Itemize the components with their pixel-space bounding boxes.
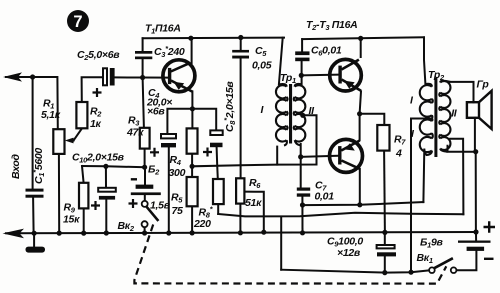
wire C2 left to R2 <box>82 77 103 102</box>
resistor R1 potentiometer box <box>53 129 64 154</box>
node T1 collector on top line <box>188 36 193 41</box>
capacitor C9 solid plate <box>377 252 396 256</box>
input arrow bottom <box>3 229 25 239</box>
resistor R3 <box>140 128 150 149</box>
wire R6 side tap <box>244 192 263 232</box>
input arrow top <box>3 72 22 81</box>
wire C10 top <box>105 166 107 187</box>
wire T2 emitter vertical <box>360 91 361 114</box>
svg-text:С1*5600: С1*5600 <box>31 148 46 184</box>
capacitor C5 plates <box>232 50 249 53</box>
wire bias left line R9-C10-B2 <box>82 166 145 167</box>
resistor R9 <box>79 183 88 209</box>
svg-text:I: I <box>261 104 265 116</box>
svg-text:Вк2: Вк2 <box>118 220 135 233</box>
wire speaker bottom <box>474 118 476 152</box>
node T1 emitter junction <box>190 106 195 111</box>
wire T1 emitter vertical <box>191 91 193 128</box>
wire input top line <box>6 77 58 129</box>
speaker Gr <box>467 91 492 129</box>
node speaker return junction <box>473 149 478 154</box>
wire Tr2 secondary feedback tap <box>450 139 463 215</box>
node R7 C9 on rail <box>382 230 387 235</box>
switch Vk2 <box>142 201 159 227</box>
node C10 on rail <box>104 230 109 235</box>
wire battery minus to switch Vk1 <box>456 251 476 270</box>
svg-text:4: 4 <box>395 148 402 160</box>
node T2 base junction <box>299 73 304 78</box>
wire B2 to switch Vk2 <box>144 195 146 233</box>
wire R8 bottom to minus line <box>217 204 219 214</box>
node T2 T3 emitter junction <box>357 111 362 116</box>
wire T3 collector line to Tr2 primary bottom <box>303 202 424 205</box>
capacitor C10 hollow plate <box>98 188 116 192</box>
svg-text:75: 75 <box>172 205 184 217</box>
battery B2 thick plate <box>136 185 154 189</box>
capacitor C9 hollow plate <box>377 245 395 248</box>
potentiometer R1 wiper arrowhead <box>65 138 74 144</box>
node C9 bottom junction <box>382 270 387 275</box>
wire bias line to Tr1 center tap <box>192 115 316 166</box>
capacitor C3 plates <box>135 51 152 54</box>
battery B1 long plate <box>458 241 491 243</box>
transformer Tr1 core <box>289 84 292 144</box>
resistor R7 <box>377 125 389 151</box>
wire C1 branch <box>33 77 34 233</box>
node R9 on rail <box>81 231 86 236</box>
wire Tr2 primary bottom <box>422 150 425 203</box>
capacitor C8 plus sign <box>203 148 212 157</box>
svg-text:Б2: Б2 <box>148 164 160 177</box>
wire T1 collector vertical <box>191 38 193 63</box>
resistor R2 <box>76 102 87 128</box>
wire R6 bottom to rail <box>239 204 241 233</box>
battery B2 minus sign <box>131 178 137 180</box>
node T2 collector on top line <box>358 36 363 41</box>
badge circle 7 <box>67 10 89 32</box>
svg-text:С8*2,0×15в: С8*2,0×15в <box>222 81 237 132</box>
wire R5 bottom <box>191 206 193 233</box>
wire C2 right to T1 base <box>115 76 168 78</box>
node R1 on rail <box>57 231 62 236</box>
svg-text:220: 220 <box>193 218 211 230</box>
wire R6 top <box>240 165 242 178</box>
wire T2 base <box>301 74 338 77</box>
svg-text:I: I <box>411 128 415 140</box>
node C1 on rail <box>31 231 36 236</box>
svg-text:С60,01: С60,01 <box>311 45 342 58</box>
wire T2 collector vertical <box>360 38 362 57</box>
capacitor C8 solid plate <box>210 143 223 148</box>
wire T3 emitter vertical <box>359 114 361 141</box>
transformer Tr2 core <box>434 78 437 158</box>
wire C4 bottom to rail <box>168 147 170 233</box>
switch Vk1 <box>429 258 456 273</box>
node Tr1 secondary center tap <box>300 113 305 118</box>
node R4 R5 bias junction <box>190 164 195 169</box>
wire R2 bottom to wiper <box>74 128 82 140</box>
node T3 collector junction <box>357 202 362 207</box>
svg-text:С3*240: С3*240 <box>154 44 185 59</box>
node Vk2 on rail <box>142 230 147 235</box>
svg-text:R4: R4 <box>170 154 182 167</box>
wire C5 bottom <box>240 59 242 166</box>
battery B2 long plate <box>131 192 161 195</box>
capacitor C1 plates <box>26 189 44 192</box>
svg-text:1к: 1к <box>90 118 102 130</box>
node R6 tap on rail <box>261 230 266 235</box>
transformer Tr2 primary winding <box>420 84 433 155</box>
svg-text:Тр1: Тр1 <box>280 72 296 85</box>
wire Tr2 center tap <box>411 119 424 273</box>
transformer Tr1 primary winding <box>276 84 288 145</box>
wire Tr2 primary top <box>424 37 425 84</box>
svg-text:47к: 47к <box>126 127 144 139</box>
svg-text:R7: R7 <box>394 134 406 147</box>
wire C6 vertical <box>301 39 304 84</box>
wire minus distribution line <box>218 213 463 217</box>
svg-text:15к: 15к <box>63 214 80 226</box>
wire C9 bottom <box>384 256 386 272</box>
svg-text:Т1П16А: Т1П16А <box>145 23 181 36</box>
svg-text:300: 300 <box>169 167 186 179</box>
svg-text:R5: R5 <box>171 192 183 205</box>
wire Tr2 secondary top to speaker <box>450 82 473 102</box>
svg-text:×12в: ×12в <box>337 247 361 259</box>
wire C3 vertical and R3 top <box>143 38 144 128</box>
battery B2 plus sign <box>91 88 212 210</box>
dashed mechanical link <box>134 225 446 284</box>
svg-text:R6: R6 <box>249 177 261 190</box>
node C5 top on top line <box>238 35 243 40</box>
transistor T3 <box>330 139 363 172</box>
capacitor C8 hollow plate <box>210 130 222 135</box>
wire top collector line segment A <box>143 37 284 40</box>
wire C10 bottom <box>105 200 107 233</box>
node R5 on rail <box>190 230 195 235</box>
wire C9 top <box>384 232 386 244</box>
wire C8 bottom to R8 top <box>217 147 218 179</box>
svg-text:С102,0×15в: С102,0×15в <box>72 152 125 165</box>
resistor R4 <box>187 128 198 153</box>
svg-text:1,5в: 1,5в <box>150 200 171 212</box>
wire R3 bottom to B2 <box>144 149 146 185</box>
battery B1 plus sign <box>131 179 495 258</box>
input node junction <box>30 74 35 79</box>
node R6 on rail <box>238 230 243 235</box>
node Tr2 center tap on minus line <box>408 270 413 275</box>
resistor R6 <box>236 178 244 203</box>
wire R7 bottom <box>383 151 386 233</box>
svg-text:С5: С5 <box>255 45 267 58</box>
ground bar <box>26 247 46 253</box>
transistor T1 <box>163 60 195 92</box>
svg-text:I: I <box>410 95 414 107</box>
capacitor C6 plates <box>295 51 309 55</box>
node T3 base junction <box>298 154 303 159</box>
capacitor C10 solid plate <box>99 196 115 200</box>
transformer Tr1 secondary winding <box>294 84 306 146</box>
capacitor C4 solid plate <box>161 143 176 147</box>
svg-text:С25,0×6в: С25,0×6в <box>77 49 120 62</box>
capacitor C2 plus sign <box>93 88 102 97</box>
wire Tr2 secondary bottom <box>448 146 476 152</box>
capacitor C2 solid plate <box>110 68 115 86</box>
potentiometer R1 wiper arrow tail <box>70 139 74 141</box>
svg-text:II: II <box>451 108 458 120</box>
svg-text:Б19в: Б19в <box>420 237 444 250</box>
svg-text:Вк1: Вк1 <box>417 252 433 265</box>
battery B1 thick plate <box>467 247 485 251</box>
node battery plus on rail <box>473 229 478 234</box>
svg-text:7: 7 <box>73 13 82 31</box>
wire R9 top <box>82 166 84 183</box>
capacitor C4 hollow plate <box>161 134 176 138</box>
svg-text:Гр: Гр <box>477 79 490 91</box>
node B2 R3 junction <box>142 165 147 170</box>
wire T3 collector vertical <box>359 170 361 205</box>
node C7 line junction <box>300 202 305 207</box>
svg-text:Т2-Т3 П16А: Т2-Т3 П16А <box>306 19 357 32</box>
ground stub <box>33 233 35 247</box>
resistor R8 <box>213 179 224 204</box>
wire R9 bottom <box>83 208 85 233</box>
transistor T2 <box>330 59 362 91</box>
svg-text:5,1к: 5,1к <box>41 109 61 121</box>
svg-text:0,01: 0,01 <box>315 191 335 203</box>
svg-text:R2: R2 <box>90 106 102 119</box>
node C10 top junction <box>103 164 108 169</box>
svg-text:51к: 51к <box>245 197 262 209</box>
svg-text:Вход: Вход <box>10 153 22 179</box>
transformer Tr2 secondary winding <box>439 81 450 152</box>
capacitor C10 plus sign <box>91 201 100 210</box>
wire T1 emitter line to C4 R4 C8 <box>167 109 216 134</box>
wire R1 bottom <box>58 154 60 233</box>
capacitor C7 plates <box>297 188 310 191</box>
node C4 on rail <box>166 230 171 235</box>
wire ground rail <box>6 232 476 233</box>
wire R4 bottom R5 top <box>191 154 193 177</box>
wire Tr1 secondary bottom to T3 base and C7 <box>301 144 338 187</box>
node C7 on rail <box>300 230 305 235</box>
capacitor C2 hollow plate <box>103 68 107 85</box>
wire emitter junction to R7 <box>360 114 385 125</box>
wire battery plus feed <box>475 152 477 241</box>
wire Tr1 primary bottom <box>276 147 278 165</box>
wire top line segment B <box>302 37 424 39</box>
battery B1 minus sign <box>484 258 494 260</box>
wire C5 top <box>240 38 242 50</box>
node T1 base junction <box>140 75 145 80</box>
svg-text:Тр2: Тр2 <box>428 69 445 82</box>
wire minus feed vertical <box>280 217 282 270</box>
resistor R5 <box>187 177 198 206</box>
wire C7 bottom to rail <box>301 197 303 233</box>
capacitor C4 plus sign <box>150 148 159 157</box>
svg-text:×6в: ×6в <box>147 106 165 118</box>
wire Tr1 primary top <box>279 38 283 85</box>
svg-text:0,05: 0,05 <box>252 60 272 72</box>
wire switched minus line <box>281 270 429 273</box>
